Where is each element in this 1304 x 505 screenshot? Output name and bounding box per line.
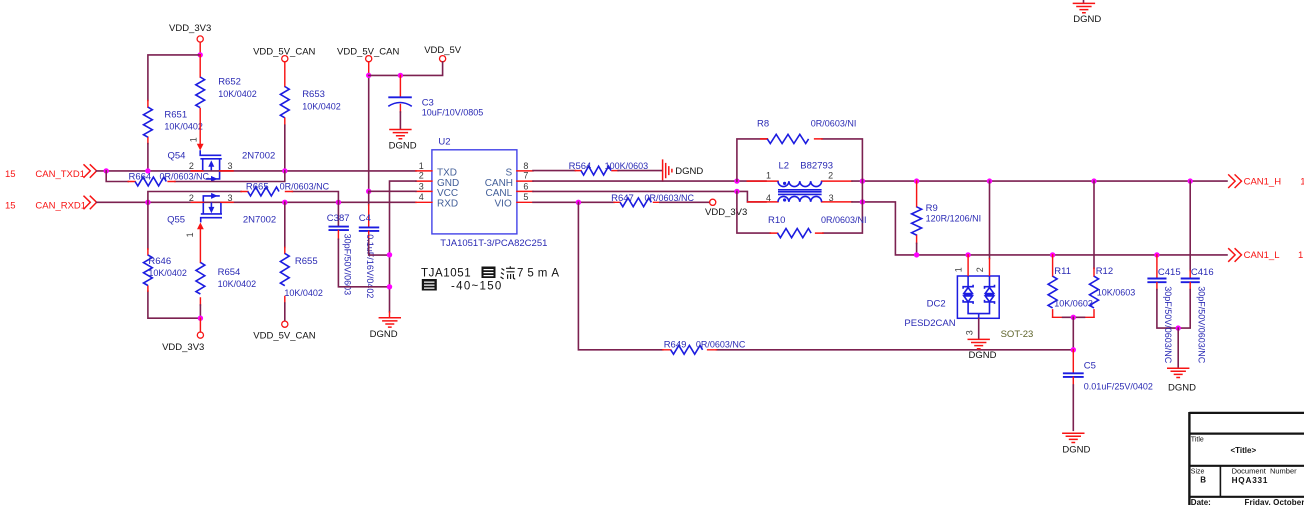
- svg-text:2N7002: 2N7002: [243, 214, 276, 225]
- pin 6 CANL: [486, 182, 534, 200]
- svg-text:1: 1: [954, 267, 964, 272]
- node RXD junction at R655: [282, 200, 287, 205]
- svg-text:R564: R564: [569, 161, 592, 172]
- svg-text:0R/0603/NI: 0R/0603/NI: [811, 119, 857, 129]
- svg-text:10K/0603: 10K/0603: [1097, 288, 1136, 298]
- node GND net C387 junction: [387, 284, 392, 289]
- node RXD junction at R646/R665: [145, 200, 150, 205]
- wire GND pin down: [390, 181, 416, 312]
- svg-text:0.01uF/25V/0402: 0.01uF/25V/0402: [1084, 382, 1153, 392]
- node C5 junction on R649 net: [1071, 347, 1076, 352]
- svg-text:CAN1_H: CAN1_H: [1244, 176, 1282, 187]
- inductor L2 common mode choke: [747, 161, 852, 204]
- svg-text:DGND: DGND: [1062, 445, 1090, 456]
- svg-text:RXD: RXD: [437, 199, 458, 210]
- svg-text:0R/0603/NC: 0R/0603/NC: [160, 172, 210, 182]
- node CAN1_H at C416: [1188, 178, 1193, 183]
- wire VDD_5V_CAN down to VCC: [368, 73, 370, 191]
- wire CANL pin to L2: [533, 191, 766, 202]
- transistor Q55 pin 2 and 3 stubs: [191, 201, 233, 203]
- svg-text:Date:: Date:: [1191, 498, 1211, 505]
- node CAN1_H at R12: [1091, 178, 1096, 183]
- resistor R12: [1090, 181, 1136, 317]
- svg-text:100K/0603: 100K/0603: [605, 161, 649, 171]
- resistor R654: [196, 229, 256, 318]
- svg-text:CAN1_L: CAN1_L: [1244, 250, 1280, 261]
- wire VDD_3V3 to R651: [148, 55, 200, 101]
- wire R653 to CAN_TXD1 net: [284, 125, 286, 171]
- svg-text:15: 15: [5, 169, 16, 180]
- wire CAN_RXD1 main: [97, 201, 416, 203]
- svg-text:10K/0402: 10K/0402: [302, 102, 341, 112]
- diode DC2 PESD2CAN: [954, 181, 1000, 335]
- svg-text:10K/0402: 10K/0402: [284, 288, 323, 298]
- svg-text:PESD2CAN: PESD2CAN: [904, 318, 955, 329]
- svg-text:R9: R9: [926, 203, 938, 214]
- svg-text:120R/1206/NI: 120R/1206/NI: [926, 214, 982, 224]
- wire to C5: [1072, 317, 1074, 350]
- svg-text:SOT-23: SOT-23: [1001, 329, 1034, 340]
- node GND net C4 junction: [387, 252, 392, 257]
- svg-text:R664: R664: [129, 172, 152, 183]
- svg-text:Q54: Q54: [168, 151, 186, 162]
- diode DC2 left TVS pair: [963, 276, 979, 314]
- capacitor C3: [388, 75, 483, 117]
- capacitor C387: [327, 202, 353, 295]
- pin 1 TXD: [416, 161, 457, 178]
- ground DGND under C387 C4: [370, 312, 401, 340]
- ground DGND under C415 C416: [1167, 368, 1196, 393]
- wire DC2 pin3 to ground: [978, 314, 980, 319]
- node CAN1_L at R9: [914, 252, 919, 257]
- node TXD junction at R653: [282, 168, 287, 173]
- node L2 pin2 junction: [860, 178, 865, 183]
- power symbol VDD_5V_CAN right: [337, 47, 399, 74]
- wire VDD_5V rail: [369, 62, 443, 76]
- node C415 C416 bottom junction: [1176, 325, 1181, 330]
- svg-text:VDD_3V3: VDD_3V3: [705, 207, 747, 218]
- svg-text:Friday, October: Friday, October: [1245, 498, 1304, 505]
- svg-text:2: 2: [419, 171, 424, 181]
- svg-text:DGND: DGND: [969, 350, 997, 361]
- resistor R655: [280, 247, 323, 320]
- wire R649 net from VIO: [578, 202, 1073, 349]
- power symbol VDD_5V_CAN left: [253, 47, 315, 87]
- net label CAN_RXD1: [5, 196, 97, 211]
- resistor R653: [280, 87, 340, 126]
- pin 8 S: [506, 161, 534, 178]
- svg-text:1: 1: [419, 161, 424, 171]
- wire R564 to ground: [618, 170, 662, 172]
- wire CANH pin to L2: [533, 180, 766, 182]
- svg-text:10K/0402: 10K/0402: [164, 122, 203, 132]
- svg-text:DGND: DGND: [1168, 382, 1196, 393]
- ground DGND top right: [1073, 0, 1102, 25]
- op-amp U2 TJA1051 transceiver box: [432, 136, 548, 249]
- svg-text:C5: C5: [1084, 360, 1096, 371]
- node TXD junction at R651: [145, 168, 150, 173]
- svg-text:DGND: DGND: [370, 329, 398, 340]
- pin 4 RXD: [416, 192, 458, 210]
- wire C415 C416 to ground: [1177, 328, 1179, 367]
- svg-text:DGND: DGND: [675, 166, 703, 177]
- wire R664 bypass: [106, 171, 285, 182]
- svg-text:15: 15: [5, 200, 16, 211]
- svg-text:2: 2: [189, 193, 194, 203]
- node C3 junction: [398, 73, 403, 78]
- svg-text:1: 1: [766, 170, 771, 180]
- wire C3 to ground: [399, 112, 401, 129]
- svg-text:R654: R654: [218, 267, 241, 278]
- node L2 pin3 junction: [860, 199, 865, 204]
- svg-text:R665: R665: [246, 181, 269, 192]
- wire L2 pin2 to CAN1_H: [852, 180, 1227, 182]
- svg-text:1: 1: [1300, 176, 1304, 187]
- node VIO junction R649 branch: [576, 200, 581, 205]
- node CAN1_H at DC2 pin2: [987, 178, 992, 183]
- svg-text:2: 2: [189, 161, 194, 171]
- wire L2 pin3 to CAN1_L: [852, 202, 1227, 255]
- svg-text:B: B: [1200, 475, 1206, 484]
- wire C4 bottom to GND net: [369, 240, 390, 255]
- svg-text:L2: L2: [779, 161, 790, 172]
- svg-text:<Title>: <Title>: [1231, 446, 1257, 455]
- wire VCC pin to VDD_5V_CAN: [369, 190, 416, 192]
- svg-text:4: 4: [419, 192, 424, 202]
- ground DGND under DC2: [968, 339, 997, 361]
- svg-text:VDD_5V_CAN: VDD_5V_CAN: [253, 331, 315, 342]
- annotation text temperature note line 2: [422, 279, 503, 293]
- resistor R8: [757, 119, 856, 144]
- capacitor C416: [1178, 181, 1213, 364]
- svg-text:30pF/50V/0603/NC: 30pF/50V/0603/NC: [1163, 286, 1173, 364]
- svg-text:R11: R11: [1054, 266, 1071, 277]
- transistor Q54: [168, 150, 276, 182]
- resistor R564: [569, 161, 649, 175]
- diode DC2 right TVS pair: [979, 276, 995, 314]
- svg-text:HQA331: HQA331: [1232, 476, 1269, 485]
- transistor Q54 pin 2 and 3 stubs: [191, 170, 233, 172]
- svg-text:2: 2: [828, 170, 833, 180]
- svg-text:C415: C415: [1158, 267, 1181, 278]
- svg-text:3: 3: [228, 193, 233, 203]
- svg-text:10K/0603: 10K/0603: [1054, 298, 1093, 308]
- power symbol VDD_3V3 mid: [660, 199, 747, 218]
- pin 7 CANH: [485, 171, 533, 189]
- resistor R10: [768, 215, 867, 238]
- capacitor C5: [1063, 350, 1153, 431]
- wire R651 to CAN_TXD1 net: [147, 144, 149, 171]
- svg-text:DGND: DGND: [1073, 14, 1101, 25]
- svg-text:5: 5: [523, 192, 528, 202]
- resistor R9: [912, 181, 982, 255]
- svg-text:R649: R649: [664, 340, 687, 351]
- svg-text:U2: U2: [438, 136, 450, 147]
- svg-text:R647: R647: [611, 193, 634, 204]
- node CAN1_L at R11: [1050, 252, 1055, 257]
- svg-text:10K/0402: 10K/0402: [218, 279, 257, 289]
- svg-text:Q55: Q55: [167, 214, 185, 225]
- resistor R11: [1048, 255, 1093, 317]
- resistor R665: [241, 181, 330, 196]
- svg-text:C4: C4: [359, 213, 371, 224]
- wire S pin to R564: [533, 170, 575, 172]
- svg-text:TXD: TXD: [437, 167, 457, 178]
- resistor R649: [663, 340, 746, 355]
- ground DGND under C3: [389, 130, 417, 152]
- wire R8 R10 bypass left leg: [737, 139, 770, 233]
- svg-text:10uF/10V/0805: 10uF/10V/0805: [422, 107, 484, 117]
- ground DGND under C5: [1062, 433, 1090, 456]
- transistor Q55 gate pin arrow and pin 1: [185, 223, 204, 238]
- node CAN1_L at DC2 pin1: [965, 252, 970, 257]
- svg-text:0R/0603/NC: 0R/0603/NC: [280, 181, 330, 191]
- title block frame: [1189, 412, 1304, 505]
- wire R11 R12 bottom rail: [1053, 316, 1094, 318]
- node CAN1_L at C415: [1154, 252, 1159, 257]
- svg-text:0R/0603/NC: 0R/0603/NC: [645, 193, 695, 203]
- svg-text:6: 6: [523, 182, 528, 192]
- pin 2 GND: [416, 171, 459, 189]
- svg-text:VIO: VIO: [495, 199, 512, 210]
- svg-text:R653: R653: [302, 89, 325, 100]
- svg-text:0R/0603/NI: 0R/0603/NI: [821, 215, 867, 225]
- svg-text:C387: C387: [327, 213, 350, 224]
- wire R8 R10 bypass right leg: [822, 139, 862, 233]
- power symbol VDD_3V3 bottom: [162, 318, 204, 353]
- svg-text:CAN_TXD1: CAN_TXD1: [35, 169, 85, 180]
- svg-text:GND: GND: [437, 178, 459, 189]
- pin 5 VIO: [495, 192, 534, 210]
- svg-text:CANH: CANH: [485, 178, 513, 189]
- svg-text:CANL: CANL: [486, 188, 513, 199]
- annotation text TJA1051 current note line 1: [421, 266, 563, 279]
- svg-text:1: 1: [189, 137, 199, 142]
- power symbol VDD_5V_CAN bottom: [253, 321, 315, 342]
- node R11 R12 junction: [1071, 315, 1076, 320]
- svg-text:2N7002: 2N7002: [242, 151, 275, 162]
- svg-text:1: 1: [1298, 250, 1303, 261]
- svg-text:VDD_3V3: VDD_3V3: [162, 342, 204, 353]
- svg-text:10K/0402: 10K/0402: [218, 89, 257, 99]
- svg-text:R8: R8: [757, 119, 769, 130]
- capacitor C4: [359, 191, 379, 298]
- svg-text:Document Number: Document Number: [1232, 467, 1298, 476]
- svg-text:VDD_5V: VDD_5V: [424, 45, 462, 56]
- svg-text:R12: R12: [1096, 266, 1113, 277]
- svg-text:1: 1: [185, 232, 195, 237]
- svg-text:0.1uF/16V/0402: 0.1uF/16V/0402: [365, 234, 375, 298]
- node TXD junction at R664 branch: [104, 168, 109, 173]
- svg-text:VDD_3V3: VDD_3V3: [169, 23, 211, 34]
- svg-text:R10: R10: [768, 215, 785, 226]
- svg-text:3: 3: [228, 161, 233, 171]
- resistor R646: [143, 249, 186, 291]
- power symbol VDD_3V3 top: [169, 23, 211, 55]
- pin 3 VCC: [416, 182, 458, 200]
- net label CAN1_H: [1229, 175, 1304, 188]
- wire R646 branch: [148, 202, 201, 318]
- svg-text:R651: R651: [164, 110, 187, 121]
- resistor R647: [611, 193, 694, 207]
- wire R655 branch: [284, 202, 286, 247]
- wire VIO pin to R647: [533, 201, 614, 203]
- svg-text:-40~150: -40~150: [451, 281, 503, 293]
- node CANL at R10 left: [734, 189, 739, 194]
- svg-text:7: 7: [523, 171, 528, 181]
- node RXD junction at C387: [336, 200, 341, 205]
- svg-text:8: 8: [523, 161, 528, 171]
- svg-text:10K/0402: 10K/0402: [148, 268, 187, 278]
- svg-text:2: 2: [975, 267, 985, 272]
- svg-text:DC2: DC2: [927, 299, 946, 310]
- node CAN1_H at R9: [914, 178, 919, 183]
- node VDD_5V junction: [366, 73, 371, 78]
- svg-text:R646: R646: [148, 256, 171, 267]
- svg-text:VCC: VCC: [437, 188, 458, 199]
- node VCC junction at C4: [366, 189, 371, 194]
- net label CAN_TXD1: [5, 165, 97, 180]
- svg-text:R652: R652: [218, 76, 241, 87]
- svg-text:R655: R655: [295, 256, 318, 267]
- svg-text:3: 3: [419, 182, 424, 192]
- svg-text:30pF/50V/0603/NC: 30pF/50V/0603/NC: [1197, 286, 1207, 364]
- wire C387 bottom to GND net: [338, 239, 389, 286]
- svg-text:TJA1051T-3/PCA82C251: TJA1051T-3/PCA82C251: [440, 238, 547, 249]
- resistor R651: [143, 101, 202, 144]
- svg-text:DGND: DGND: [389, 141, 417, 152]
- wire R665 bypass: [148, 192, 339, 203]
- svg-text:S: S: [506, 167, 513, 178]
- svg-text:75mA: 75mA: [517, 268, 563, 280]
- ground DGND rotated right of R564: [663, 159, 704, 181]
- svg-text:Size: Size: [1191, 468, 1205, 475]
- transistor Q55: [167, 193, 276, 226]
- node VDD_3V3 junction: [198, 52, 203, 57]
- net label CAN1_L: [1229, 249, 1304, 262]
- wire CAN_TXD1 main: [97, 170, 416, 172]
- svg-text:C416: C416: [1191, 267, 1214, 278]
- svg-text:Title: Title: [1191, 437, 1204, 444]
- transistor Q54 gate pin arrow and pin 1: [189, 137, 204, 150]
- svg-text:CAN_RXD1: CAN_RXD1: [35, 200, 86, 211]
- svg-text:3: 3: [964, 330, 974, 335]
- capacitor C415: [1147, 255, 1180, 364]
- svg-text:0R/0603/NC: 0R/0603/NC: [696, 340, 746, 350]
- power symbol VDD_5V: [424, 45, 462, 62]
- resistor R652: [196, 55, 257, 143]
- svg-text:30pF/50V/0603: 30pF/50V/0603: [343, 234, 353, 296]
- svg-text:TJA1051: TJA1051: [421, 268, 471, 280]
- resistor R664: [128, 172, 209, 186]
- node R654/R646 bottom junction: [198, 316, 203, 321]
- node CANH at R8 left: [734, 178, 739, 183]
